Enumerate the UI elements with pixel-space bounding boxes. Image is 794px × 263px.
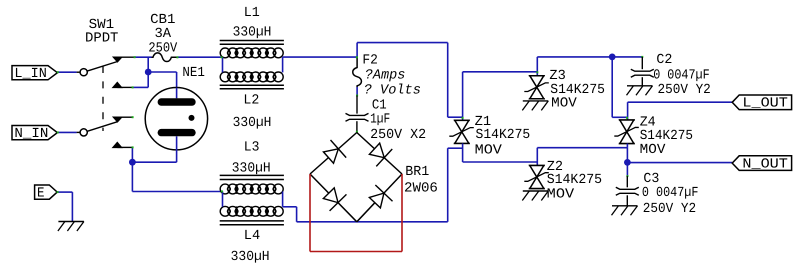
pin marks <box>134 56 136 58</box>
capacitor C1 1uF 250V X2 <box>356 96 358 114</box>
wire N_IN to switch pole 2 <box>57 131 76 133</box>
svg-text:F2: F2 <box>362 54 378 69</box>
wire Z2 node up to N rail <box>536 148 538 162</box>
svg-text:BR1: BR1 <box>405 165 429 180</box>
inductor L2 330uH <box>220 72 230 82</box>
svg-text:L2: L2 <box>243 94 259 109</box>
choke core lines bottom L2 <box>220 84 284 86</box>
junction node L rail <box>609 54 616 61</box>
svg-text:330µH: 330µH <box>233 26 272 41</box>
svg-text:MOV: MOV <box>551 97 577 112</box>
wire L_IN to switch pole 1 <box>57 71 76 73</box>
bridge rectifier BR1 2W06 <box>310 133 357 175</box>
svg-text:250V Y2: 250V Y2 <box>643 202 696 217</box>
junction node L-switch <box>145 69 152 76</box>
switch SW1 pole2 bottom throw contact <box>113 143 121 148</box>
terminal N_IN <box>12 126 57 140</box>
capacitor C3 0 0047uF 250V Y2 <box>626 162 628 176</box>
svg-text:1µF: 1µF <box>370 113 390 128</box>
svg-text:N_OUT: N_OUT <box>742 158 788 173</box>
diode BR1 top-right <box>369 143 384 158</box>
inductor L3 330uH <box>220 184 230 194</box>
svg-text:250V Y2: 250V Y2 <box>658 83 711 98</box>
chassis ground at Z3 <box>523 100 549 102</box>
wire L3-L4 left tie <box>222 192 224 207</box>
wire junction to NE1 top <box>148 71 176 73</box>
wire F2 to C1 <box>356 87 358 96</box>
chassis ground at Z2 <box>523 190 549 192</box>
wire Z1 bottom to N net <box>462 143 464 162</box>
svg-text:L3: L3 <box>244 141 260 156</box>
svg-text:NE1: NE1 <box>182 66 205 81</box>
wire junction down to Z4 top <box>611 57 613 117</box>
svg-text:0 0047µF: 0 0047µF <box>653 68 710 83</box>
terminal E <box>35 185 58 199</box>
varistor Z4 S14K275 MOV <box>627 117 629 120</box>
fuse F2 ?Amps ?Volts <box>353 57 362 87</box>
wire L1 out to F2 node <box>283 56 358 58</box>
wire junction down to L3 <box>131 162 133 191</box>
switch SW1 pole 1 <box>80 69 87 76</box>
svg-text:CB1: CB1 <box>150 13 175 28</box>
capacitor C2 0 0047uF 250V Y2 <box>641 57 643 69</box>
svg-text:C3: C3 <box>643 172 659 187</box>
svg-text:250V X2: 250V X2 <box>370 128 426 143</box>
svg-text:330µH: 330µH <box>233 116 272 131</box>
svg-text:MOV: MOV <box>640 143 666 158</box>
svg-text:2W06: 2W06 <box>404 182 438 197</box>
choke core lines bottom L4 <box>220 220 284 222</box>
wire to N_OUT terminal <box>627 162 732 164</box>
svg-text:DPDT: DPDT <box>85 32 118 47</box>
svg-text:L_IN: L_IN <box>14 67 47 82</box>
choke core L3/L4 <box>220 174 284 176</box>
wire L_OUT rail <box>627 102 629 117</box>
svg-text:S14K275: S14K275 <box>476 128 531 143</box>
wire BR1 dc link red <box>309 174 311 252</box>
wire Z3 rail up to top rail <box>536 57 538 72</box>
wire bottom N rail <box>297 221 448 223</box>
wire pole2 bottom throw down to junction <box>131 147 133 162</box>
wire top rail to C2 <box>612 56 642 58</box>
svg-text:L1: L1 <box>244 6 260 21</box>
wire L1-L2 right tie <box>282 57 284 72</box>
neon lamp NE1 <box>145 88 207 150</box>
diode BR1 bottom-right <box>369 193 384 208</box>
svg-text:C1: C1 <box>372 99 387 114</box>
diode BR1 bottom-left <box>323 188 338 203</box>
wire Z1 top up to Z3 rail <box>462 72 464 117</box>
choke core L1/L2 <box>220 40 284 42</box>
svg-text:3A: 3A <box>155 27 172 42</box>
switch SW1 pole1 top throw contact <box>114 57 122 61</box>
svg-text:C2: C2 <box>656 53 672 68</box>
diode BR1 top-left <box>323 149 338 163</box>
svg-text:330µH: 330µH <box>232 161 271 176</box>
svg-text:L_OUT: L_OUT <box>742 97 788 112</box>
wire NE1 bottom to junction <box>176 136 178 162</box>
wire F2 node up and right to Z network <box>356 43 358 58</box>
circuit breaker CB1 <box>152 53 179 62</box>
switch SW1 pole2 top throw contact <box>114 117 122 121</box>
varistor Z3 S14K275 MOV <box>536 72 538 76</box>
svg-text:0 0047µF: 0 0047µF <box>642 186 699 201</box>
wire L1-L2 left tie <box>222 57 224 72</box>
inductor L4 330uH <box>220 206 230 216</box>
terminal L_IN <box>12 66 57 80</box>
terminal L_OUT <box>732 95 791 110</box>
earth chassis ground <box>58 221 84 223</box>
wire N rail up to Z1 bottom <box>447 148 449 222</box>
wire Z4 bottom to N_OUT junction <box>626 148 628 163</box>
wire L3-L4 right tie <box>282 192 284 207</box>
svg-text:? Volts: ? Volts <box>364 83 421 98</box>
svg-text:N_IN: N_IN <box>14 127 48 142</box>
varistor Z1 S14K275 MOV <box>462 117 464 120</box>
svg-text:S14K275: S14K275 <box>547 173 602 188</box>
wire CB1 to L1 <box>177 56 222 58</box>
svg-text:SW1: SW1 <box>89 18 115 33</box>
wire pole1 throws to CB1 <box>135 56 152 58</box>
junction node N_OUT <box>624 159 631 166</box>
inductor L1 330uH <box>220 48 230 58</box>
svg-text:MOV: MOV <box>547 187 575 202</box>
terminal N_OUT <box>732 156 791 171</box>
svg-text:Z3: Z3 <box>549 69 565 84</box>
junction node N-switch <box>129 159 136 166</box>
wire L4 out to bottom rail <box>283 206 297 208</box>
svg-text:330µH: 330µH <box>231 250 270 263</box>
svg-text:MOV: MOV <box>475 143 503 158</box>
switch SW1 gang dashed link <box>102 66 104 131</box>
svg-text:?Amps: ?Amps <box>365 68 406 83</box>
svg-text:E: E <box>37 187 45 202</box>
svg-text:S14K275: S14K275 <box>640 129 693 144</box>
chassis ground at C2 <box>627 85 653 87</box>
svg-text:L4: L4 <box>244 229 260 244</box>
wire E to chassis ground <box>57 191 72 193</box>
switch SW1 pole1 bottom throw contact <box>113 83 121 88</box>
switch SW1 pole 2 <box>80 129 87 136</box>
chassis ground at C3 <box>612 205 638 207</box>
varistor Z2 S14K275 MOV <box>536 162 538 166</box>
svg-text:250V: 250V <box>148 41 178 56</box>
